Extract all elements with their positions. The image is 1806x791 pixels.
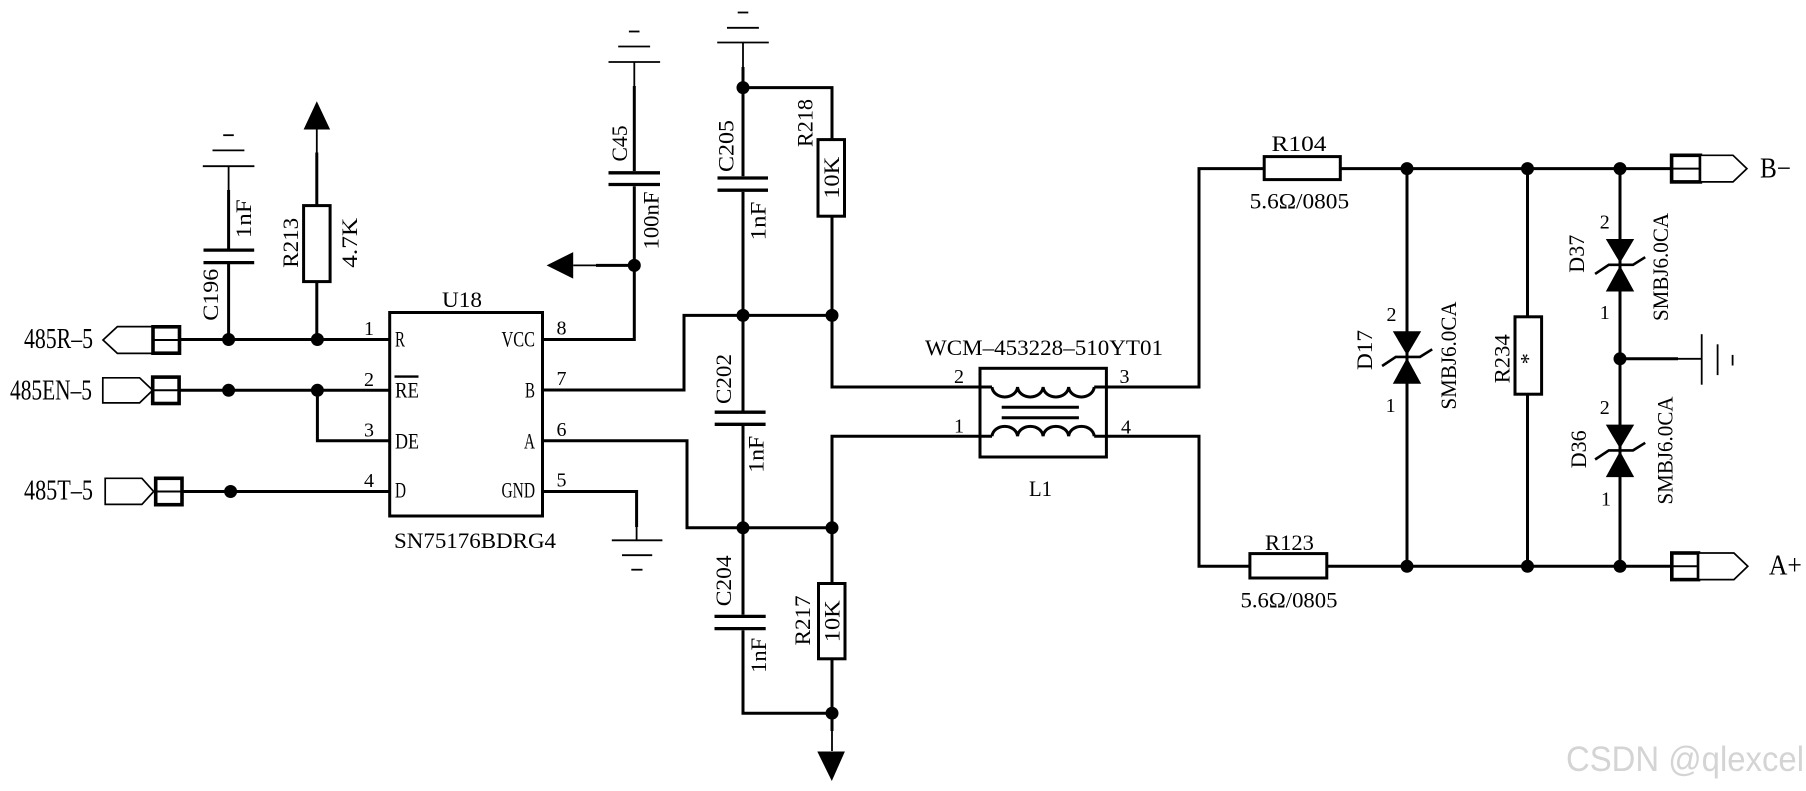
resistor R218 body (818, 140, 845, 217)
svg-text:1: 1 (954, 415, 964, 437)
wire R217 top (831, 528, 834, 584)
junction A+ rail at D17 (1401, 560, 1414, 573)
junction C45 / arrow (628, 259, 641, 272)
wire A pin6 to transformer pin1 (543, 436, 993, 528)
wire D36 vertical (1619, 359, 1622, 567)
ground above C196 (203, 135, 255, 190)
svg-text:2: 2 (364, 369, 374, 391)
svg-text:1: 1 (1386, 395, 1396, 417)
svg-text:3: 3 (364, 419, 374, 441)
resistor R217 body (819, 584, 846, 659)
svg-text:CSDN @qlexcel: CSDN @qlexcel (1566, 740, 1804, 779)
svg-text:VCC: VCC (502, 327, 536, 352)
svg-text:10K: 10K (819, 600, 844, 642)
transistor D36 TVS diode (1595, 425, 1645, 478)
wire C45 down to VCC net (633, 186, 636, 265)
port 485T-5 flag (105, 478, 154, 504)
wire L1 pin3 up to B- rail (1094, 169, 1264, 387)
svg-text:C196: C196 (198, 269, 223, 321)
svg-text:R: R (395, 327, 405, 352)
port 485T-5 box (156, 478, 182, 504)
wire C205 to B rail (742, 192, 745, 316)
junction B- rail at R234 (1521, 162, 1534, 175)
power arrow above R213 (304, 101, 331, 152)
junction A+ rail at R234 (1521, 560, 1534, 573)
junction B- rail at D17 (1401, 162, 1414, 175)
svg-text:1nF: 1nF (746, 638, 771, 673)
wire ground to C45 (633, 86, 636, 171)
wire D37 vertical (1619, 169, 1622, 359)
svg-text:RE: RE (395, 378, 419, 403)
svg-text:10K: 10K (819, 157, 844, 199)
ground above C205 (717, 13, 769, 68)
svg-text:5: 5 (557, 470, 567, 492)
wire C205 junction down to plates (742, 88, 745, 177)
svg-text:D17: D17 (1352, 330, 1377, 370)
svg-text:2: 2 (1387, 304, 1397, 326)
ground above C45 (609, 32, 661, 87)
wire power to R213 (315, 153, 318, 206)
capacitor C204 (715, 528, 833, 713)
port A+ flag (1699, 553, 1748, 580)
svg-text:4.7K: 4.7K (337, 218, 362, 268)
wire B- rail (1340, 167, 1671, 170)
junction D37/D36/ground (1614, 352, 1627, 365)
power arrow pointing left at VCC (547, 252, 635, 279)
svg-text:*: * (1516, 353, 1541, 364)
svg-text:R104: R104 (1272, 131, 1327, 156)
wire R213 to 485R net (315, 282, 318, 340)
svg-text:C204: C204 (711, 555, 736, 606)
svg-text:485R–5: 485R–5 (24, 324, 93, 355)
power arrow pointing down (bottom) (817, 713, 845, 781)
svg-text:485T–5: 485T–5 (24, 476, 93, 507)
capacitor C205 plates (718, 178, 769, 190)
svg-text:SMBJ6.0CA: SMBJ6.0CA (1648, 213, 1673, 321)
svg-text:R218: R218 (793, 99, 818, 147)
junction C205 top (737, 81, 750, 94)
op-amp U18 body (390, 313, 543, 517)
port B- flag (1700, 155, 1747, 182)
junction A+ rail at D36 (1614, 560, 1627, 573)
junction on 485R net at R213 (311, 333, 324, 346)
svg-text:2: 2 (954, 366, 964, 388)
svg-text:WCM–453228–510YT01: WCM–453228–510YT01 (925, 335, 1163, 360)
svg-text:R213: R213 (278, 218, 303, 268)
svg-text:485EN–5: 485EN–5 (10, 375, 92, 406)
svg-text:1nF: 1nF (745, 202, 770, 241)
svg-text:SN75176BDRG4: SN75176BDRG4 (394, 528, 556, 553)
svg-text:D36: D36 (1566, 430, 1591, 468)
junction on T net (224, 485, 237, 498)
svg-text:A: A (524, 429, 535, 454)
svg-text:R217: R217 (790, 595, 815, 645)
junction A rail at R217 (826, 521, 839, 534)
svg-text:5.6Ω/0805: 5.6Ω/0805 (1250, 188, 1350, 213)
port B- box (1672, 155, 1701, 182)
capacitor C196 (204, 190, 255, 340)
wire C205 junction to R218 top (743, 88, 832, 140)
wire B pin7 to transformer pin2 (543, 315, 993, 390)
svg-text:R123: R123 (1265, 530, 1314, 555)
svg-text:1nF: 1nF (744, 436, 769, 473)
junction B- rail at D37 (1614, 162, 1627, 175)
svg-text:GND: GND (502, 478, 536, 503)
wire R218 to B rail (831, 216, 834, 315)
wire L1 pin4 down to A+ rail (1094, 436, 1250, 566)
svg-text:2: 2 (1600, 211, 1610, 233)
junction on 485R net at C196 (222, 333, 235, 346)
wire 485EN-5 to pin RE (179, 389, 390, 392)
ground below pin 5 (612, 527, 663, 570)
wire 485T-5 to pin D (182, 490, 390, 493)
port A+ box (1672, 553, 1699, 580)
svg-text:6: 6 (557, 419, 567, 441)
svg-text:C205: C205 (713, 120, 738, 172)
ground right (rotated) (1678, 334, 1733, 385)
svg-text:B: B (525, 378, 535, 403)
svg-text:8: 8 (557, 318, 567, 340)
wire R234 top (1526, 169, 1529, 317)
svg-text:5.6Ω/0805: 5.6Ω/0805 (1241, 588, 1338, 613)
wire R234 bottom (1526, 394, 1529, 566)
svg-text:C202: C202 (711, 354, 736, 404)
svg-text:D: D (395, 478, 406, 503)
wire R217 bottom (831, 659, 834, 713)
port 485EN-5 flag (103, 378, 153, 403)
resistor R104 body (1264, 157, 1340, 180)
wire ground to C205 top junction (742, 67, 745, 88)
svg-text:U18: U18 (442, 287, 482, 312)
svg-text:1: 1 (1600, 302, 1610, 324)
resistor R123 body (1250, 554, 1327, 578)
port 485R-5 flag (103, 327, 153, 354)
junction on EN net at DE branch (311, 384, 324, 397)
svg-text:7: 7 (557, 368, 567, 390)
junction B rail at C202 (737, 309, 750, 322)
svg-text:L1: L1 (1029, 476, 1052, 501)
wire D17 vertical (1406, 169, 1409, 567)
svg-text:4: 4 (364, 470, 374, 492)
wire GND pin5 to ground (543, 492, 637, 528)
svg-text:SMBJ6.0CA: SMBJ6.0CA (1436, 301, 1461, 409)
L1 top winding (992, 387, 1094, 397)
U18 pin name RE with overline (395, 377, 420, 403)
resistor R213 body (304, 206, 331, 282)
transformer L1 body (980, 368, 1106, 457)
svg-text:C45: C45 (607, 126, 632, 162)
junction A rail at C202/C204 (737, 521, 750, 534)
capacitor C202 (715, 315, 766, 527)
capacitor C45 plates (609, 173, 661, 185)
transistor D37 TVS diode (1595, 239, 1645, 292)
svg-text:1nF: 1nF (231, 199, 256, 238)
svg-text:100nF: 100nF (639, 192, 664, 250)
wire junction to ground right (1620, 357, 1678, 360)
L1 core lines (1002, 407, 1079, 417)
svg-text:D37: D37 (1564, 235, 1589, 273)
svg-text:3: 3 (1120, 366, 1130, 388)
svg-text:1: 1 (364, 318, 374, 340)
svg-text:SMBJ6.0CA: SMBJ6.0CA (1653, 396, 1678, 504)
wire EN branch down to DE (317, 390, 389, 441)
port 485R-5 box (153, 327, 180, 353)
wire VCC pin8 to C45 net (543, 265, 635, 339)
svg-text:B−: B− (1760, 153, 1791, 184)
svg-text:2: 2 (1600, 397, 1610, 419)
L1 bottom winding (992, 426, 1094, 436)
svg-text:R234: R234 (1489, 334, 1514, 383)
svg-text:1: 1 (1601, 489, 1611, 511)
junction B rail at R218 (826, 309, 839, 322)
port 485EN-5 box (153, 377, 179, 403)
wire 485R-5 to pin R (180, 338, 390, 341)
svg-text:DE: DE (395, 429, 419, 454)
transistor D17 TVS diode (1382, 331, 1432, 384)
junction on EN net left (222, 384, 235, 397)
resistor R234 body (1515, 317, 1542, 394)
svg-text:A+: A+ (1769, 551, 1802, 582)
wire A+ rail (1327, 565, 1672, 568)
junction bottom rail (826, 707, 839, 720)
